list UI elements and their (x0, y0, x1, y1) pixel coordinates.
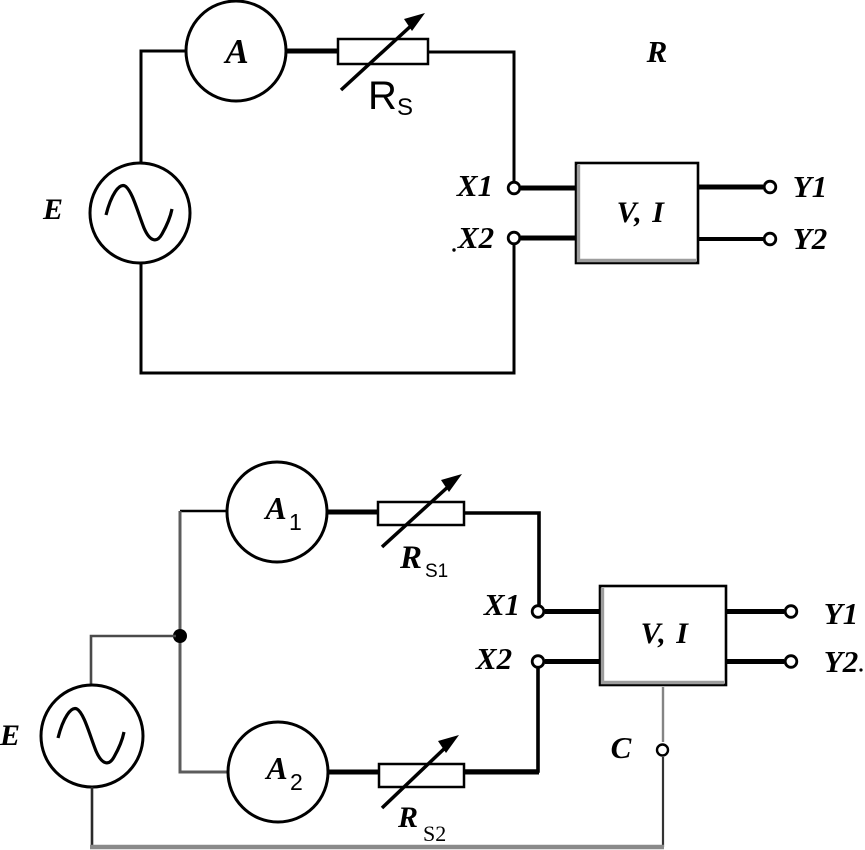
box V, I (bottom) (600, 586, 726, 685)
resistor RS (variable) (338, 39, 428, 64)
svg-text:R: R (399, 540, 422, 576)
ammeter A2 (228, 722, 328, 822)
svg-text:R: R (646, 34, 668, 69)
source E (top) (90, 163, 190, 263)
svg-text:X2: X2 (457, 220, 494, 255)
sine wave inside E (bottom) (58, 709, 124, 763)
wire box to terminal Y1 (698, 185, 763, 190)
wire: loop from E bottom along bottom side up to X2 (141, 244, 514, 373)
wire ammeter A1 left to corner, vertical down through junction to A2 branch (180, 510, 228, 513)
terminal X2 (508, 232, 520, 244)
svg-text:S2: S2 (423, 821, 446, 846)
wire resistor RS to corner and down to terminal X1 (428, 52, 514, 182)
svg-text:S: S (397, 94, 413, 121)
svg-text:X2: X2 (475, 641, 512, 676)
svg-text:Y2: Y2 (793, 221, 827, 256)
wire box bottom to terminal C (662, 687, 664, 742)
svg-text:S1: S1 (425, 561, 448, 582)
box V, I (top) (576, 163, 698, 263)
source E (bottom) (41, 685, 143, 787)
wire from ammeter A left to top-left corner and down to source E (141, 51, 188, 164)
ammeter A1 (227, 462, 327, 562)
wire X2 to box V,I (521, 236, 577, 241)
svg-text:Y1: Y1 (793, 169, 827, 204)
terminal X1 (bottom circuit) (532, 606, 544, 618)
svg-text:R: R (368, 74, 397, 118)
svg-text:E: E (0, 719, 20, 752)
bottom rail wire E to C (90, 845, 664, 850)
wire vertical junction line (180, 511, 228, 772)
sine wave inside E (106, 186, 172, 240)
svg-text:1: 1 (289, 509, 302, 535)
svg-text:A: A (263, 490, 286, 526)
resistor RS1 (variable) (378, 502, 464, 525)
wire RS1 to corner and down to terminal X1 (464, 513, 539, 605)
ammeter A (186, 1, 286, 101)
wire ammeter A to resistor RS (286, 49, 339, 54)
svg-text:C: C (611, 730, 632, 765)
wire X1 to box V,I (bottom) (545, 609, 601, 614)
wire box to terminal Y2 (698, 237, 763, 241)
svg-text:E: E (42, 193, 63, 226)
terminal C (657, 745, 668, 756)
svg-text:X1: X1 (456, 168, 493, 203)
wire box to terminal Y2 (bottom) (726, 659, 784, 664)
wire X2 to box V,I (bottom) (545, 659, 601, 664)
svg-text:V, I: V, I (641, 617, 690, 650)
terminal Y1 (bottom) (785, 606, 797, 618)
junction node (173, 629, 187, 643)
svg-text:X1: X1 (483, 587, 520, 622)
wire A2 to resistor RS2 (328, 770, 380, 775)
terminal X2 (bottom circuit) (532, 656, 544, 668)
svg-text:V, I: V, I (617, 196, 666, 229)
svg-text:A: A (264, 750, 287, 786)
wire A1 to resistor RS1 (327, 510, 379, 515)
svg-text:Y2: Y2 (824, 644, 858, 679)
svg-text:Y1: Y1 (824, 596, 858, 631)
svg-text:A: A (223, 32, 248, 71)
resistor RS2 (variable) (379, 764, 464, 787)
svg-text:R: R (397, 801, 418, 834)
terminal Y2 (764, 233, 776, 245)
wire X1 to box V,I (521, 186, 577, 191)
terminal Y1 (764, 181, 776, 193)
wire junction to source E (bottom) (91, 636, 176, 686)
terminal X1 (508, 182, 520, 194)
wire box to terminal Y1 (bottom) (726, 609, 784, 614)
svg-text:2: 2 (290, 769, 303, 795)
wire X2 down to RS2 output (464, 668, 538, 771)
terminal Y2 (bottom) (785, 656, 797, 668)
wire E bottom down to rail (91, 787, 94, 846)
wire C down to bottom rail (662, 757, 664, 847)
